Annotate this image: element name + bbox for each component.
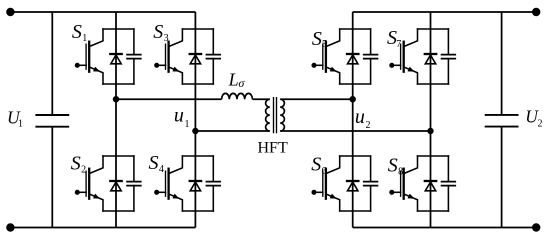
- diode of S3 cathode bar: [190, 53, 201, 55]
- svg-text:S: S: [72, 21, 82, 43]
- IGBT S5 emitter lead: [326, 67, 340, 84]
- IGBT S7 emitter arrow: [408, 67, 415, 72]
- diode of S7 triangle: [425, 55, 435, 64]
- IGBT S8 emitter arrow: [408, 194, 415, 199]
- svg-text:HFT: HFT: [258, 140, 288, 157]
- diode of S6 triangle: [348, 182, 358, 191]
- switch cell S8: [389, 156, 455, 211]
- snubber capacitor of S4 plates: [207, 182, 221, 186]
- svg-text:1: 1: [185, 119, 190, 130]
- diode of S4 triangle: [190, 182, 200, 191]
- switch cell S7: [389, 29, 455, 84]
- snubber capacitor of S6 plates: [364, 182, 378, 186]
- IGBT S4 emitter lead: [169, 194, 183, 211]
- IGBT S3 gate bar: [165, 44, 167, 69]
- wire node u1 bottom (S3 leg to transformer primary): [195, 130, 269, 132]
- IGBT S6 collector lead: [326, 156, 340, 174]
- svg-text:u: u: [355, 106, 365, 128]
- cell top bus of S5: [340, 28, 371, 30]
- diode of S2 cathode bar: [110, 180, 121, 182]
- IGBT S3 collector lead: [169, 29, 183, 47]
- wire bridge leg S5/S6: [352, 12, 354, 228]
- capacitor U1 leads: [51, 12, 53, 228]
- IGBT S7 gate bar: [400, 44, 402, 69]
- transformer HFT secondary winding: [280, 99, 284, 131]
- IGBT S3 gate lead: [157, 64, 166, 66]
- terminal dot output bottom: [532, 223, 540, 231]
- snubber capacitor of S7 plates: [442, 55, 456, 59]
- junction node u1 top on S1 leg: [113, 96, 119, 102]
- IGBT S4 gate terminal dot: [154, 190, 159, 195]
- IGBT S7 gate lead: [392, 64, 401, 66]
- IGBT S2 gate terminal dot: [75, 190, 80, 195]
- IGBT S1 emitter lead: [89, 67, 103, 84]
- snubber capacitor of S2 leads: [133, 156, 135, 211]
- snubber capacitor of S8 leads: [447, 156, 449, 211]
- diode of S4 cathode bar: [190, 180, 201, 182]
- IGBT S7 emitter lead: [404, 67, 418, 84]
- wire node u1 top (S1 leg to inductor): [116, 98, 222, 100]
- IGBT S8 gate lead: [392, 191, 401, 193]
- snubber capacitor of S4 leads: [212, 156, 214, 211]
- svg-text:8: 8: [398, 166, 403, 177]
- IGBT S8 collector lead: [404, 156, 418, 174]
- cell bottom bus of S1: [103, 83, 134, 85]
- terminal dot output top: [532, 8, 540, 16]
- IGBT S1 gate bar: [85, 44, 87, 69]
- wire top rail left (input positive bus): [10, 11, 195, 13]
- snubber capacitor of S8 plates: [442, 182, 456, 186]
- svg-text:6: 6: [322, 166, 327, 177]
- IGBT S7 collector lead: [404, 29, 418, 47]
- IGBT S6 emitter arrow: [330, 194, 337, 199]
- svg-text:1: 1: [82, 33, 87, 44]
- cell top bus of S2: [103, 155, 134, 157]
- switch cell S1: [75, 29, 141, 84]
- wire bridge leg S7/S8: [430, 12, 432, 228]
- wire bottom rail right (output negative bus): [353, 227, 537, 229]
- IGBT S8 gate bar: [400, 171, 402, 196]
- svg-text:S: S: [71, 152, 81, 174]
- IGBT S2 gate bar: [85, 171, 87, 196]
- snubber capacitor of S5 leads: [370, 29, 372, 84]
- IGBT S1 body bar: [88, 42, 90, 72]
- IGBT S3 emitter lead: [169, 67, 183, 84]
- cell bottom bus of S8: [418, 210, 449, 212]
- svg-text:2: 2: [366, 120, 371, 131]
- IGBT S5 body bar: [325, 42, 327, 72]
- cell bottom bus of S6: [340, 210, 371, 212]
- IGBT S4 collector lead: [169, 156, 183, 174]
- svg-text:4: 4: [159, 164, 164, 175]
- snubber capacitor of S2 plates: [127, 182, 141, 186]
- svg-text:S: S: [149, 152, 159, 174]
- IGBT S1 emitter arrow: [93, 67, 100, 72]
- junction node u2 top on S5 leg: [350, 96, 356, 102]
- svg-text:2: 2: [81, 164, 86, 175]
- cell top bus of S3: [182, 28, 213, 30]
- svg-text:L: L: [228, 70, 239, 90]
- snubber capacitor of S1 plates: [127, 55, 141, 59]
- IGBT S2 gate lead: [78, 191, 87, 193]
- cell top bus of S6: [340, 155, 371, 157]
- IGBT S6 gate lead: [314, 191, 323, 193]
- cell bottom bus of S5: [340, 83, 371, 85]
- wire inductor to transformer primary: [252, 98, 269, 100]
- cell bottom bus of S4: [182, 210, 213, 212]
- switch cell S2: [75, 156, 141, 211]
- svg-text:S: S: [311, 154, 321, 176]
- IGBT S5 gate terminal dot: [311, 63, 316, 68]
- diode of S8 triangle: [425, 182, 435, 191]
- IGBT S1 collector lead: [89, 29, 103, 47]
- IGBT S8 body bar: [403, 169, 405, 199]
- capacitor U1 plates: [35, 115, 69, 127]
- svg-text:2: 2: [538, 119, 543, 130]
- diode of S5 cathode bar: [347, 53, 358, 55]
- wire node u2 bottom (transformer secondary to S7 leg): [280, 130, 430, 132]
- svg-text:S: S: [388, 154, 398, 176]
- IGBT S6 gate bar: [322, 171, 324, 196]
- wire node u2 top (transformer secondary to S5 leg): [280, 98, 353, 100]
- cell bottom bus of S3: [182, 83, 213, 85]
- snubber capacitor of S7 leads: [447, 29, 449, 84]
- IGBT S5 collector lead: [326, 29, 340, 47]
- svg-text:1: 1: [18, 119, 23, 130]
- svg-text:7: 7: [396, 39, 401, 50]
- snubber capacitor of S5 plates: [364, 55, 378, 59]
- svg-text:S: S: [153, 21, 163, 43]
- diode of S5 triangle: [348, 55, 358, 64]
- wire bottom rail left (input negative bus): [10, 227, 195, 229]
- cell top bus of S8: [418, 155, 449, 157]
- transformer HFT core: [274, 97, 277, 133]
- diode of S3 triangle: [190, 55, 200, 64]
- IGBT S3 body bar: [167, 42, 169, 72]
- snubber capacitor of S6 leads: [370, 156, 372, 211]
- svg-text:S: S: [312, 28, 322, 50]
- IGBT S1 gate terminal dot: [75, 63, 80, 68]
- snubber capacitor of S3 plates: [207, 55, 221, 59]
- capacitor U2 plates: [485, 115, 519, 127]
- diode of S2 triangle: [111, 182, 121, 191]
- IGBT S4 body bar: [167, 169, 169, 199]
- switch cell S4: [154, 156, 220, 211]
- IGBT S7 gate terminal dot: [389, 63, 394, 68]
- IGBT S3 gate terminal dot: [154, 63, 159, 68]
- snubber capacitor of S1 leads: [133, 29, 135, 84]
- IGBT S4 emitter arrow: [172, 194, 179, 199]
- IGBT S2 emitter lead: [89, 194, 103, 211]
- diode of S7 cathode bar: [425, 53, 436, 55]
- IGBT S6 gate terminal dot: [311, 190, 316, 195]
- wire bridge leg S3/S4: [194, 12, 196, 228]
- wire bridge leg S1/S2: [115, 12, 117, 228]
- cell top bus of S7: [418, 28, 449, 30]
- junction node u2 bottom on S7 leg: [427, 128, 433, 134]
- diode of S1 triangle: [111, 55, 121, 64]
- inductor L_sigma: [222, 93, 253, 99]
- IGBT S5 gate bar: [322, 44, 324, 69]
- IGBT S6 emitter lead: [326, 194, 340, 211]
- terminal dot input top: [6, 8, 14, 16]
- switch cell S5: [311, 29, 377, 84]
- wire top rail right (output positive bus): [353, 11, 537, 13]
- diode of S6 cathode bar: [347, 180, 358, 182]
- IGBT S6 body bar: [325, 169, 327, 199]
- cell top bus of S1: [103, 28, 134, 30]
- diode of S8 cathode bar: [425, 180, 436, 182]
- cell bottom bus of S7: [418, 83, 449, 85]
- svg-text:3: 3: [164, 33, 169, 44]
- IGBT S8 emitter lead: [404, 194, 418, 211]
- IGBT S1 gate lead: [78, 64, 87, 66]
- IGBT S3 emitter arrow: [172, 67, 179, 72]
- diode of S1 cathode bar: [110, 53, 121, 55]
- IGBT S7 body bar: [403, 42, 405, 72]
- IGBT S4 gate bar: [165, 171, 167, 196]
- svg-text:5: 5: [322, 39, 327, 50]
- IGBT S5 emitter arrow: [330, 67, 337, 72]
- IGBT S2 emitter arrow: [93, 194, 100, 199]
- cell bottom bus of S2: [103, 210, 134, 212]
- IGBT S2 body bar: [88, 169, 90, 199]
- cell top bus of S4: [182, 155, 213, 157]
- switch cell S6: [311, 156, 377, 211]
- IGBT S5 gate lead: [314, 64, 323, 66]
- snubber capacitor of S3 leads: [212, 29, 214, 84]
- switch cell S3: [154, 29, 220, 84]
- IGBT S2 collector lead: [89, 156, 103, 174]
- svg-text:u: u: [174, 105, 184, 127]
- transformer HFT primary winding: [266, 99, 270, 131]
- terminal dot input bottom: [6, 223, 14, 231]
- capacitor U2 leads: [501, 12, 503, 228]
- IGBT S4 gate lead: [157, 191, 166, 193]
- junction node u1 bottom on S3 leg: [192, 128, 198, 134]
- IGBT S8 gate terminal dot: [389, 190, 394, 195]
